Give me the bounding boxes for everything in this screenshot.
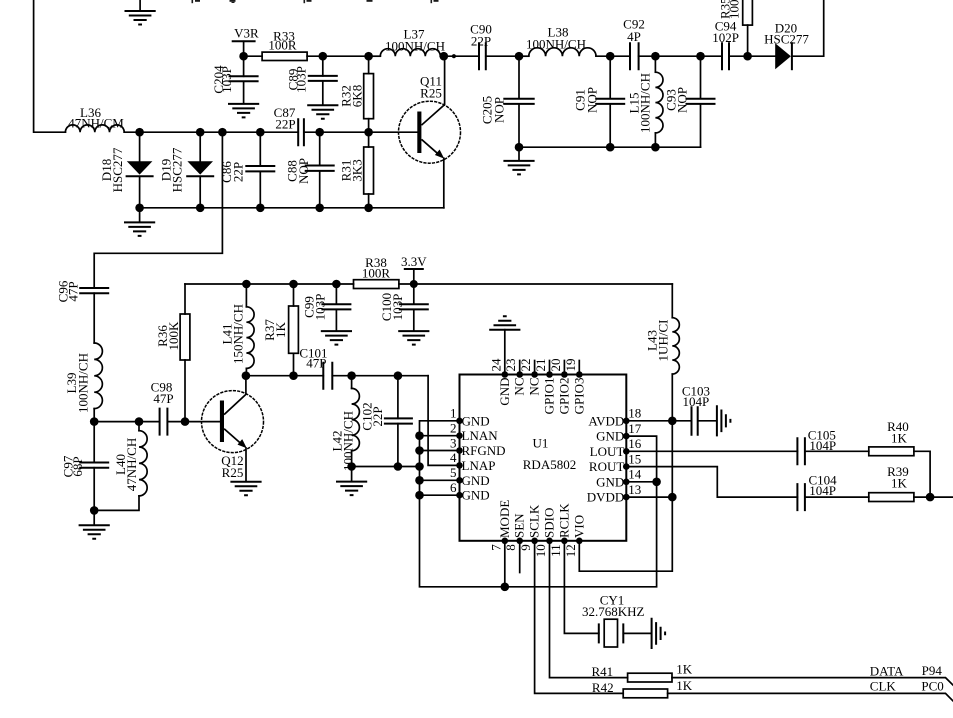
node rail L15	[651, 143, 660, 152]
pin 10 SDIO	[550, 541, 628, 678]
wire left vertical from top edge down to L36 rail	[34, 0, 66, 132]
node rail C91	[606, 143, 615, 152]
svg-text:SCLK: SCLK	[527, 504, 542, 538]
pin 6 GND	[420, 494, 460, 496]
ground below C204	[228, 104, 259, 118]
pin 22 NC	[534, 361, 536, 375]
svg-text:22: 22	[518, 359, 533, 372]
svg-text:1K: 1K	[676, 678, 693, 693]
svg-text:11: 11	[548, 544, 563, 557]
svg-text:24: 24	[488, 358, 503, 372]
svg-text:4: 4	[450, 450, 457, 465]
resistor R35 100R (cut at top)	[743, 0, 753, 25]
resistor R37 1K	[293, 284, 295, 376]
inductor L36 47NH/CM	[65, 125, 124, 132]
wire AVDD/DVDD bus	[671, 421, 673, 497]
node L15 junction	[651, 52, 660, 61]
svg-text:5: 5	[450, 465, 457, 480]
svg-text:1K: 1K	[891, 476, 908, 491]
svg-text:100NH/CH: 100NH/CH	[385, 38, 445, 53]
svg-text:V3R: V3R	[234, 26, 259, 41]
svg-text:GPIO3: GPIO3	[571, 378, 586, 415]
ground below C205	[518, 147, 520, 160]
svg-text:GND: GND	[596, 429, 624, 444]
svg-text:15: 15	[628, 451, 641, 466]
wire 3.3V top rail	[185, 283, 672, 285]
node C97 bottom junction	[90, 506, 99, 515]
wire R39 to right edge	[914, 496, 953, 498]
resistor R32 6K8	[368, 56, 370, 132]
ground below Q12 emitter	[230, 482, 261, 496]
resistor R33 100R	[262, 52, 307, 60]
inductor L38 100NH/CH	[529, 48, 596, 56]
resistor R38 100R	[354, 280, 399, 289]
node C86 top	[256, 128, 265, 137]
svg-text:103P: 103P	[294, 66, 309, 93]
node C102 bottom	[394, 462, 403, 471]
node Q11 collector junction	[440, 52, 449, 61]
svg-text:32.768KHZ: 32.768KHZ	[582, 604, 645, 619]
node D19 top	[196, 128, 205, 137]
svg-text:100NH/CH: 100NH/CH	[76, 353, 91, 413]
capacitor C98 47P (series)	[160, 409, 168, 435]
svg-text:NC: NC	[512, 378, 527, 396]
svg-text:4P: 4P	[627, 29, 641, 44]
capacitor C92 4P	[630, 43, 639, 69]
node C102 top	[394, 371, 403, 380]
inductor L41 150NH/CH	[245, 284, 247, 307]
svg-text:MODE: MODE	[497, 500, 512, 538]
node L42 top	[347, 371, 356, 380]
wire L38 to C91 node	[596, 55, 610, 57]
capacitor C90 22P	[479, 43, 486, 69]
ground below C100	[398, 331, 429, 345]
wire R41 to DATA exit	[672, 678, 953, 686]
svg-text:17: 17	[628, 421, 642, 436]
wire C96 branch: rail down, jog left, down to C96	[94, 132, 222, 288]
pin 13 DVDD	[626, 496, 672, 498]
wire V3R node to R33	[244, 55, 263, 57]
node gnd rail D19	[196, 204, 205, 213]
svg-text:NOP: NOP	[675, 87, 690, 113]
svg-text:HSC277: HSC277	[170, 147, 185, 192]
svg-text:3K3: 3K3	[350, 159, 365, 181]
svg-text:100NH/CH: 100NH/CH	[341, 411, 356, 471]
capacitor C103 104P (series)	[692, 407, 698, 435]
svg-text:U1: U1	[533, 436, 549, 451]
svg-text:CLK: CLK	[870, 679, 897, 694]
svg-text:PC0: PC0	[921, 679, 943, 694]
node C99 top	[332, 280, 341, 289]
svg-text:20: 20	[548, 359, 563, 372]
ground below D18	[139, 208, 141, 222]
pin 17 GND	[623, 433, 630, 440]
svg-text:2: 2	[450, 421, 457, 436]
node AVDD/L43 junction	[668, 417, 677, 426]
node gnd rail R31	[364, 204, 373, 213]
pin 4 LNAP	[456, 462, 463, 469]
transistor Q12 R25	[202, 391, 264, 453]
pin 24 GND with inverted ground above	[504, 330, 506, 375]
svg-text:22P: 22P	[370, 406, 385, 426]
ground below C99	[321, 331, 352, 345]
diode D19 HSC277	[199, 132, 201, 208]
capacitor C88 NOP	[319, 132, 321, 208]
node C96 branch top	[218, 128, 227, 137]
ground right of C103	[699, 420, 717, 422]
svg-text:GND: GND	[462, 473, 490, 488]
pin 20 GPIO2	[563, 361, 565, 375]
capacitor C101 47P (series)	[323, 363, 332, 389]
capacitor C89 103P	[322, 56, 324, 105]
svg-text:100NH/CH: 100NH/CH	[526, 36, 586, 51]
resistor R39 1K	[869, 493, 914, 502]
svg-text:GPIO2: GPIO2	[556, 378, 571, 415]
transistor Q11 R25	[399, 101, 461, 163]
svg-text:14: 14	[628, 467, 642, 482]
svg-text:GND: GND	[596, 474, 624, 489]
pin 7 MODE	[504, 541, 506, 587]
svg-text:1K: 1K	[273, 321, 288, 338]
inductor L39 100NH/CH	[94, 343, 102, 409]
svg-text:R41: R41	[592, 664, 614, 679]
node L42 bottom	[347, 462, 356, 471]
svg-text:LNAN: LNAN	[462, 428, 499, 443]
wire C105 to R40	[805, 450, 869, 452]
pin 9 SCLK	[535, 541, 624, 694]
svg-text:HSC277: HSC277	[110, 147, 125, 192]
diode D18 HSC277	[139, 132, 141, 208]
svg-text:47NH/CM: 47NH/CM	[68, 116, 124, 131]
node R37 top	[289, 280, 298, 289]
capacitor C100 103P	[413, 284, 415, 331]
inductor L40 47NH/CH	[138, 422, 140, 431]
svg-text:RFGND: RFGND	[462, 443, 506, 458]
svg-text:22P: 22P	[231, 162, 246, 182]
svg-text:1: 1	[450, 406, 457, 421]
svg-text:NC: NC	[527, 378, 542, 396]
wire R35 node to D20	[748, 55, 776, 57]
svg-text:DVDD: DVDD	[587, 490, 625, 505]
node R32/R31 junction	[364, 128, 373, 137]
svg-text:21: 21	[533, 359, 548, 372]
svg-text:104P: 104P	[683, 394, 710, 409]
svg-text:13: 13	[628, 482, 641, 497]
svg-text:103P: 103P	[390, 294, 405, 321]
svg-text:23: 23	[503, 359, 518, 372]
svg-text:104P: 104P	[809, 483, 836, 498]
capacitor C105 104P (series)	[797, 438, 805, 464]
pin 23 NC	[519, 361, 521, 375]
pin 3 RFGND	[420, 450, 460, 452]
svg-text:LNAP: LNAP	[462, 458, 496, 473]
node gnd rail C86	[256, 204, 265, 213]
node gnd rail D18	[135, 204, 144, 213]
wire L36 to Q11 base rail	[124, 131, 298, 133]
svg-text:GPIO1: GPIO1	[542, 378, 557, 415]
ground below C89	[307, 105, 338, 119]
node gnd rail C88	[315, 204, 324, 213]
wire R42 to CLK exit	[668, 693, 953, 701]
svg-text:SDIO: SDIO	[542, 508, 557, 538]
wire LNAP branch down	[428, 376, 459, 466]
wire C205 node to L38	[519, 55, 529, 57]
svg-text:6K8: 6K8	[350, 85, 365, 107]
title text fragments (cut off at top)	[192, 0, 439, 3]
node bus/ground-rail junction	[415, 462, 424, 471]
capacitor C97 68P	[93, 422, 95, 511]
ground below L42	[351, 467, 353, 482]
wire C98 to Q12 base	[167, 421, 220, 423]
pin 18 AVDD	[626, 420, 691, 422]
wire NOP bottom rail	[519, 146, 701, 148]
wire C94 to R35 node	[729, 55, 748, 57]
op-amp U1 RDA5802 chip body	[460, 375, 627, 541]
inductor L15 100NH/CH	[654, 56, 656, 72]
svg-text:47P: 47P	[306, 355, 326, 370]
node R36 bottom junction	[181, 417, 190, 426]
ground top-left (cut at top)	[139, 0, 141, 11]
diode D20 HSC277	[775, 43, 791, 69]
svg-text:RDA5802: RDA5802	[523, 457, 576, 472]
capacitor C102 22P	[397, 376, 399, 467]
svg-text:R25: R25	[420, 85, 442, 100]
capacitor C87 22P (series)	[298, 119, 304, 145]
resistor R42 1K	[623, 689, 667, 698]
node L39/C97 junction	[90, 417, 99, 426]
wire C92 to L15 node	[639, 55, 656, 57]
svg-text:3: 3	[450, 435, 457, 450]
wire R32 node to L37	[369, 55, 381, 57]
svg-text:100: 100	[727, 0, 742, 19]
wire C101 rail	[246, 375, 428, 377]
svg-text:22P: 22P	[471, 33, 491, 48]
svg-text:R25: R25	[222, 465, 244, 480]
node L40 top	[135, 417, 144, 426]
pin 21 GPIO1	[549, 361, 551, 375]
pin 12 VIO	[579, 497, 672, 571]
svg-text:12: 12	[563, 544, 578, 557]
wire L15 node to C93 node	[655, 55, 700, 57]
wire Q12 base rail	[94, 421, 159, 423]
node C89 junction	[319, 52, 328, 61]
svg-text:DATA: DATA	[870, 663, 904, 678]
svg-text:100R: 100R	[268, 38, 297, 53]
svg-text:47NH/CH: 47NH/CH	[124, 438, 139, 491]
svg-text:19: 19	[563, 359, 578, 372]
svg-text:GND: GND	[497, 378, 512, 406]
node rail C205	[515, 143, 524, 152]
resistor R36 100K	[184, 284, 186, 422]
svg-text:6: 6	[450, 480, 457, 495]
wire C104 to R39	[805, 496, 869, 498]
capacitor C91 NOP	[609, 56, 611, 147]
svg-text:22P: 22P	[275, 117, 295, 132]
wire CY1 to ground	[623, 632, 651, 634]
svg-text:1K: 1K	[891, 430, 908, 445]
pin 8 SEN	[519, 541, 521, 573]
inductor L42 100NH/CH	[351, 376, 353, 389]
pin 11 RCLK	[564, 541, 598, 634]
inductor L37 100NH/CH	[380, 49, 440, 56]
resistor R31 3K3	[368, 132, 370, 208]
svg-text:8: 8	[503, 544, 518, 551]
ground right of CY1	[652, 618, 666, 649]
svg-text:VIO: VIO	[571, 515, 586, 538]
svg-text:100K: 100K	[166, 321, 181, 351]
svg-text:NOP: NOP	[296, 158, 311, 184]
svg-text:100NH/CH: 100NH/CH	[638, 73, 653, 133]
wire C90 to C205 node	[486, 55, 519, 57]
svg-text:1UH/CI: 1UH/CI	[656, 320, 671, 362]
svg-text:47P: 47P	[153, 391, 173, 406]
svg-text:16: 16	[628, 436, 642, 451]
svg-text:3.3V: 3.3V	[401, 254, 427, 269]
capacitor C205 NOP	[518, 56, 520, 147]
node C93 junction	[696, 52, 705, 61]
inductor L43 1UH/CI	[671, 284, 673, 318]
capacitor C93 NOP	[700, 56, 702, 147]
resistor R41 1K	[628, 673, 672, 682]
svg-text:1K: 1K	[676, 661, 693, 676]
svg-text:LOUT: LOUT	[590, 444, 625, 459]
pin 5 GND	[420, 479, 460, 481]
svg-text:47P: 47P	[66, 281, 81, 301]
wire C91 node to C92	[610, 55, 630, 57]
svg-text:NOP: NOP	[492, 97, 507, 123]
wire C93 node to C94	[701, 55, 723, 57]
svg-text:ROUT: ROUT	[589, 459, 624, 474]
svg-text:HSC277: HSC277	[764, 32, 809, 47]
svg-text:10: 10	[533, 544, 548, 557]
svg-text:7: 7	[488, 544, 503, 551]
node C88 top	[315, 128, 324, 137]
svg-text:R42: R42	[592, 680, 614, 695]
wire C87 to Q11 base	[304, 131, 417, 133]
capacitor C104 104P (series)	[797, 484, 805, 510]
svg-text:RCLK: RCLK	[556, 503, 571, 538]
pin 16 LOUT	[626, 450, 797, 452]
capacitor C99 103P	[335, 284, 337, 331]
svg-text:100R: 100R	[362, 266, 391, 281]
node L41 top	[242, 280, 251, 289]
wire bottom ground rail	[140, 207, 444, 209]
capacitor C204 103P	[243, 56, 245, 103]
resistor R40 1K	[869, 447, 914, 456]
wire R33 to C89 node	[307, 55, 323, 57]
capacitor C94 102P	[722, 43, 729, 69]
wire C89 node to R32 node	[323, 55, 369, 57]
svg-text:AVDD: AVDD	[588, 413, 624, 428]
svg-text:103P: 103P	[313, 294, 328, 321]
svg-text:P94: P94	[922, 663, 943, 678]
node C91 junction	[606, 52, 615, 61]
node L41 bottom / Q12 collector	[242, 371, 251, 380]
svg-text:150NH/CH: 150NH/CH	[231, 304, 246, 364]
wire GND bus left of U1	[420, 421, 657, 587]
svg-text:GND: GND	[462, 488, 490, 503]
capacitor C96 47P	[80, 288, 108, 293]
pin 2 LNAN	[420, 435, 460, 437]
svg-text:68P: 68P	[70, 456, 85, 476]
node R32 junction	[364, 52, 373, 61]
wire L37 to C90	[440, 55, 479, 57]
wire D20 to top edge	[792, 0, 824, 56]
pin 1 GND	[456, 418, 463, 425]
wire R40 to R39 output node	[914, 451, 930, 497]
pin 14 GND	[626, 481, 656, 483]
wire L42/C102 ground rail	[352, 466, 420, 468]
node R40/R39 output junction	[926, 493, 935, 502]
svg-text:18: 18	[628, 406, 641, 421]
svg-text:103P: 103P	[219, 66, 234, 93]
node R37 bottom	[289, 371, 298, 380]
svg-text:SEN: SEN	[512, 513, 527, 538]
capacitor C86 22P	[259, 132, 261, 208]
pin 15 ROUT	[626, 467, 797, 498]
node small junction	[452, 54, 456, 58]
node D18 top	[135, 128, 144, 137]
svg-text:102P: 102P	[712, 30, 739, 45]
svg-text:GND: GND	[462, 413, 490, 428]
svg-text:NOP: NOP	[585, 87, 600, 113]
node R35 junction	[743, 52, 752, 61]
ground below C97	[93, 510, 95, 524]
pin 19 GPIO3	[578, 361, 580, 375]
node C205 junction	[515, 52, 524, 61]
svg-text:9: 9	[518, 544, 533, 551]
